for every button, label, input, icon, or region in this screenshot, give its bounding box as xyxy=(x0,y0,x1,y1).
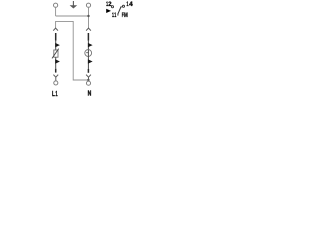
FM contact seat (tick at 14) xyxy=(120,6,122,8)
wire (N-branch plug lead, thick dash) xyxy=(87,33,89,41)
FM actuation arrow xyxy=(106,9,111,13)
background xyxy=(0,0,185,101)
terminal L1 (circle) xyxy=(54,81,58,85)
label L1 xyxy=(52,91,58,98)
svg-text:1: 1 xyxy=(114,12,116,19)
svg-text:M: M xyxy=(124,12,128,19)
plug contact (lower, N-branch chevron with stem) xyxy=(86,75,91,81)
FM remote contact: label 12 xyxy=(106,1,112,8)
svg-text:4: 4 xyxy=(129,1,133,8)
wire (below varistor) xyxy=(55,57,57,68)
disconnect arrow (above varistor) xyxy=(55,43,60,47)
ground arrow (PE direction arrow, top centre) xyxy=(70,1,78,9)
FM remote contact: label 11 xyxy=(112,12,116,19)
plug contact (upper, N-branch chevron) xyxy=(86,28,91,31)
junction (PE bus / N-branch) xyxy=(87,15,89,17)
wire (L-branch plug lead, thick dash) xyxy=(55,33,57,41)
wire (top-left terminal down to PE bus) xyxy=(55,7,57,16)
gas discharge tube F1 (circle with electrodes) xyxy=(85,50,92,57)
wire (into gas discharge tube) xyxy=(87,41,89,51)
terminal X2 (top-right PE terminal circle) xyxy=(86,3,90,7)
wire (top-right terminal down through bus to upper plug contact) xyxy=(88,7,90,28)
varistor RV1 (box with diagonal) xyxy=(52,49,59,59)
plug contact (lower, L-branch chevron with stem) xyxy=(53,75,58,81)
svg-text:1: 1 xyxy=(55,91,57,98)
plug contact (upper, L-branch chevron) xyxy=(53,28,58,31)
FM remote contact: label FM xyxy=(122,12,128,19)
terminal X1 (top-left PE terminal circle) xyxy=(54,3,58,7)
disconnect arrow (below varistor) xyxy=(55,59,60,63)
wire (N-branch lower plug lead, thick dash) xyxy=(87,69,89,73)
FM remote contact: label 14 xyxy=(126,1,133,8)
FM contact 12 (NC circle) xyxy=(111,6,113,8)
terminal N (circle) xyxy=(86,81,90,85)
svg-text:N: N xyxy=(88,91,92,98)
junction (varistor link / N terminal) xyxy=(87,79,89,81)
wire (PE bus horizontal) xyxy=(56,15,89,17)
wire (into varistor) xyxy=(55,41,57,50)
disconnect arrow (below gas discharge tube) xyxy=(88,59,93,63)
wire (varistor top link: up, across, down, across to N node) xyxy=(56,21,89,80)
FM lever (common 11 switch arm) xyxy=(118,7,121,16)
disconnect arrow (above gas discharge tube) xyxy=(88,43,93,47)
wire (below gas discharge tube) xyxy=(87,56,89,69)
FM contact 14 (NO circle) xyxy=(122,5,124,7)
wire (L-branch lower plug lead, thick dash) xyxy=(55,69,57,73)
